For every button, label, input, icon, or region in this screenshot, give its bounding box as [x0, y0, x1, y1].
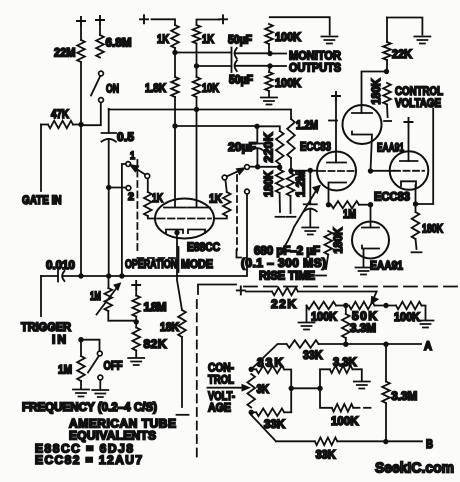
- wire box corner: [198, 285, 236, 295]
- resistor 100K (block): [320, 388, 360, 428]
- wire trigger line: [81, 194, 247, 276]
- svg-text:3K: 3K: [257, 382, 270, 396]
- node 47K/22M junction: [78, 122, 83, 127]
- svg-text:ECC83: ECC83: [374, 190, 410, 204]
- label node A: [424, 339, 432, 353]
- resistor 22M: [54, 26, 85, 62]
- label AMERICAN TUBE: [69, 417, 176, 431]
- terminal bar 180K control: [384, 120, 391, 122]
- ground (varcap): [302, 228, 318, 235]
- tube ECC83 (right) envelope: [390, 151, 429, 190]
- resistor 1K (anode left): [152, 19, 179, 52]
- resistor 220K: [257, 126, 284, 167]
- wire 22M line down: [80, 62, 82, 276]
- power + mark (6.8M top): [96, 16, 104, 24]
- wire to OFF switch: [81, 340, 100, 351]
- svg-text:180K: 180K: [422, 222, 443, 236]
- svg-text:2: 2: [128, 191, 134, 203]
- wire bus y109: [109, 109, 291, 111]
- switch OFF: [88, 351, 123, 389]
- switch contact (trigger side): [245, 189, 250, 194]
- svg-text:IN: IN: [52, 333, 66, 347]
- switch gang dashed link right: [237, 175, 242, 258]
- minus mark (EAA91): [329, 120, 337, 122]
- node EAA91/ECC83 junction: [368, 168, 373, 173]
- resistor 1K (left grid): [144, 178, 163, 218]
- E88CC plate left: [164, 127, 186, 208]
- resistor 47K: [41, 107, 81, 128]
- svg-text:1K: 1K: [152, 191, 163, 205]
- svg-text:33K: 33K: [303, 348, 323, 362]
- svg-text:1K: 1K: [202, 32, 214, 46]
- wire ECC83 left anode: [335, 101, 337, 163]
- power + mark (ECC83 right): [405, 118, 413, 126]
- svg-text:OUTPUTS: OUTPUTS: [289, 61, 341, 75]
- svg-text:100K: 100K: [275, 76, 301, 90]
- variable capacitor 680pF-2uF: [304, 170, 317, 226]
- node E88CC cathode junction: [174, 230, 179, 235]
- label GATE IN: [22, 193, 62, 207]
- label OPERATION: [125, 257, 177, 271]
- wire E88CC cathode down: [177, 233, 182, 310]
- svg-text:MODE: MODE: [181, 257, 213, 271]
- ground (3.3K): [354, 382, 370, 389]
- EAA91 top plate: [352, 112, 372, 114]
- node monitor junction: [267, 51, 272, 56]
- label E88CC = 6DJ8: [35, 442, 133, 456]
- wire trigger stub: [40, 276, 42, 316]
- power + mark (1K left): [140, 15, 148, 23]
- svg-text:1.8K: 1.8K: [145, 81, 166, 95]
- tube EAA91 (top) envelope: [343, 105, 382, 144]
- switch contact 1: [122, 150, 135, 276]
- label EQUIVALENTS: [69, 429, 156, 443]
- resistor 3.3K: [320, 355, 362, 388]
- resistor 1.8M: [132, 290, 166, 322]
- node 1.8M/82K junction: [134, 319, 139, 324]
- E88CC grid: [158, 218, 211, 220]
- node 3K top: [249, 367, 254, 372]
- svg-text:1.2M: 1.2M: [293, 171, 307, 197]
- node 1M right junction: [368, 202, 373, 207]
- switch gang dashed link: [137, 160, 175, 258]
- resistor 180K (cathode mid): [324, 227, 345, 269]
- svg-text:AGE: AGE: [208, 401, 231, 415]
- label E88CC: [187, 240, 220, 254]
- node 3K bottom: [249, 410, 254, 415]
- wire grid to node: [371, 170, 391, 172]
- svg-text:10K: 10K: [202, 81, 219, 95]
- svg-text:1.2M: 1.2M: [296, 118, 318, 132]
- resistor 33K (3K top): [251, 356, 291, 412]
- resistor 33K (3K bottom): [251, 409, 291, 432]
- switch wiper arm (left): [131, 165, 150, 178]
- svg-text:3.3M: 3.3M: [391, 389, 417, 403]
- switch wiper arm (right): [227, 165, 250, 177]
- svg-text:18K: 18K: [160, 320, 179, 334]
- label FREQUENCY: [22, 400, 157, 414]
- resistor 100K (pot left): [307, 302, 346, 324]
- ground (82K): [128, 358, 144, 365]
- wire wiper to 20uF: [249, 166, 255, 168]
- wire outputs stub: [273, 65, 286, 67]
- resistor 1K (anode right): [193, 20, 219, 67]
- resistor 100K (monitor top): [265, 17, 330, 53]
- negative terminal bar: [177, 414, 189, 416]
- ground (monitor bottom): [261, 98, 277, 105]
- svg-text:0.5: 0.5: [117, 130, 134, 144]
- capacitor 0.5: [102, 109, 135, 188]
- node A/3.3M junction: [343, 342, 348, 347]
- power + mark (1K right): [219, 15, 227, 23]
- resistor 180K (cathode right): [412, 204, 444, 249]
- svg-text:TROL: TROL: [208, 373, 234, 387]
- arrow 3K wiper: [208, 385, 249, 390]
- node 0.010-line junction: [106, 273, 111, 278]
- switch contact (right grid): [222, 175, 227, 180]
- switch ON: [83, 71, 119, 125]
- wire down to trigger line: [108, 188, 110, 277]
- resistor 1.2M (grid): [287, 171, 308, 213]
- node 1K/50uF junction: [172, 50, 177, 55]
- node 1K/50uF-2 junction: [194, 63, 199, 68]
- ground (OFF switch): [92, 390, 108, 397]
- svg-text:FREQUENCY (0.2–4 C/S): FREQUENCY (0.2–4 C/S): [22, 400, 157, 414]
- wire OPERATION/MODE divider: [178, 247, 180, 272]
- terminal bar 180K right: [412, 251, 422, 253]
- arrow varcap wiper: [281, 186, 320, 251]
- potentiometer 50K: [349, 302, 396, 323]
- svg-text:180K: 180K: [369, 78, 383, 104]
- label ECC83 (left): [300, 140, 331, 154]
- label MONITOR: [289, 49, 341, 63]
- wire 3K to 3.3K block: [291, 387, 320, 389]
- svg-text:47K: 47K: [51, 107, 69, 121]
- label node B: [426, 437, 433, 451]
- capacitor 20uF: [228, 129, 264, 165]
- svg-text:22K: 22K: [271, 297, 296, 311]
- wire monitor stub: [273, 53, 286, 55]
- node 20uF top junction: [254, 124, 259, 129]
- svg-text:50µF: 50µF: [229, 73, 253, 87]
- label TRIGGER IN: [21, 320, 71, 347]
- svg-text:1M: 1M: [90, 289, 101, 303]
- node 3.3K block: [317, 386, 322, 391]
- svg-text:ECC83: ECC83: [300, 140, 331, 154]
- power + mark (22M top): [77, 17, 85, 25]
- ground (100K right): [418, 321, 434, 328]
- svg-text:OPERATION: OPERATION: [125, 257, 177, 271]
- resistor 6.8M: [96, 25, 131, 58]
- E88CC plate right: [188, 110, 210, 208]
- dash 100K continuation: [364, 407, 371, 409]
- node 50K left: [343, 303, 348, 308]
- svg-text:50µF: 50µF: [228, 33, 252, 47]
- ground (monitor top): [321, 37, 337, 44]
- E88CC cathodes: [166, 230, 205, 234]
- wire 220K-180K junction wire: [258, 166, 280, 168]
- svg-text:OFF: OFF: [104, 359, 123, 373]
- node B/3.3M junction: [383, 439, 388, 444]
- label EAA91 (top): [377, 141, 404, 155]
- resistor 100K (monitor bottom): [265, 66, 301, 97]
- ECC83 left cathode: [329, 183, 347, 205]
- node trigger/22M junction: [78, 273, 83, 278]
- potentiometer 3K: [247, 374, 269, 408]
- minus mark rise time: [316, 275, 326, 277]
- resistor 1K (right grid): [209, 180, 231, 219]
- resistor 3.3M (left): [342, 306, 376, 345]
- svg-text:1K: 1K: [157, 32, 169, 46]
- svg-text:33K: 33K: [264, 417, 285, 431]
- svg-text:33K: 33K: [257, 356, 283, 370]
- svg-text:100K: 100K: [394, 310, 420, 324]
- resistor 82K: [132, 322, 166, 357]
- svg-text:1M: 1M: [58, 363, 72, 377]
- node 1.2M junction: [288, 168, 293, 173]
- resistor 1M (to ground): [58, 341, 85, 389]
- wire grid wire: [291, 170, 317, 172]
- svg-text:ON: ON: [106, 82, 119, 96]
- svg-text:22K: 22K: [392, 47, 412, 61]
- node 220K/180K junction: [277, 165, 282, 170]
- svg-text:1: 1: [130, 150, 135, 162]
- capacitor 50uF (lower): [197, 60, 271, 87]
- node 20uF/wiper junction: [255, 164, 260, 169]
- ground (1M): [73, 390, 89, 397]
- svg-text:22M: 22M: [54, 46, 76, 60]
- node 50K right: [383, 303, 388, 308]
- ECC83 left grid: [319, 170, 354, 172]
- resistor 3.3M (right): [382, 344, 417, 442]
- svg-text:EQUIVALENTS: EQUIVALENTS: [69, 429, 156, 443]
- wire GATE IN lead: [40, 125, 42, 192]
- label CON-TROL VOLT-AGE: [208, 361, 235, 415]
- node 1.8K column junction: [172, 123, 177, 128]
- tube EAA91 (bottom) envelope: [352, 222, 389, 259]
- capacitor 0.010: [41, 258, 81, 282]
- node ECC83 cathode junction: [413, 201, 418, 206]
- dashed supply rail: [244, 286, 458, 288]
- node cathode/1M junction: [326, 202, 331, 207]
- svg-text:180K: 180K: [261, 171, 275, 197]
- svg-text:GATE IN: GATE IN: [22, 193, 62, 207]
- ground (EAA91-2): [356, 268, 372, 275]
- label 680pF-2uF: [254, 244, 320, 258]
- terminal bar 180K: [276, 216, 285, 218]
- arrow 50K wiper: [372, 292, 378, 304]
- resistor 1M (cathode): [331, 201, 368, 221]
- EAA91 bottom plate: [362, 227, 379, 229]
- wire EAA91 anode: [362, 72, 387, 114]
- label ECC83 (right): [374, 190, 410, 204]
- label OUTPUTS: [289, 61, 341, 75]
- svg-text:ECC82 = 12AU7: ECC82 = 12AU7: [35, 453, 142, 467]
- label EAA91 (bottom): [370, 259, 403, 273]
- logo SeekIC.com: [375, 460, 454, 477]
- capacitor 50uF (upper): [175, 33, 270, 60]
- resistor 33K (node B): [251, 415, 422, 462]
- node A/3.3M-right junction: [383, 342, 388, 347]
- resistor 22K (lower): [246, 288, 377, 311]
- label MODE: [181, 257, 213, 271]
- resistor 180K (control): [369, 78, 391, 117]
- ECC83 right grid: [390, 170, 424, 172]
- node 10K/wire junction: [194, 107, 199, 112]
- label 0.1-300MS: [241, 256, 326, 270]
- svg-text:6.8M: 6.8M: [106, 36, 132, 50]
- resistor 18K: [160, 310, 186, 407]
- tube E88CC envelope: [155, 199, 214, 239]
- ground (22K): [414, 37, 430, 44]
- svg-text:1M: 1M: [343, 207, 356, 221]
- resistor 1.2M (anode): [287, 110, 318, 171]
- tube ECC83 (left) envelope: [317, 152, 356, 191]
- svg-text:A: A: [424, 339, 432, 353]
- EAA91 top cathode: [352, 132, 372, 172]
- resistor 22K (top right): [383, 18, 422, 72]
- svg-text:82K: 82K: [144, 337, 167, 351]
- terminal bar 1.2M: [287, 216, 296, 218]
- wire EAA91-2 anode: [370, 205, 372, 228]
- node 22K junction: [384, 69, 389, 74]
- node varcap junction: [308, 168, 313, 173]
- switch contact 2: [126, 186, 134, 203]
- power + mark (ECC83 left): [332, 92, 340, 100]
- node 0.5 cap / switch-2 junction: [106, 185, 111, 190]
- wire bus y126: [175, 125, 257, 127]
- svg-text:20µF: 20µF: [228, 140, 256, 154]
- ground (100K left): [299, 323, 315, 330]
- svg-text:100K: 100K: [331, 414, 359, 428]
- wire ECC83 right anode: [408, 127, 410, 161]
- power + mark (1.8M top): [132, 281, 140, 289]
- svg-text:E88CC: E88CC: [187, 240, 220, 254]
- node outputs junction: [267, 63, 272, 68]
- label CONTROL VOLTAGE: [395, 84, 443, 110]
- power + mark (lower rail): [237, 286, 245, 294]
- resistor 1.8K: [145, 53, 179, 127]
- svg-text:100K: 100K: [275, 30, 301, 44]
- svg-text:0.010: 0.010: [46, 258, 75, 272]
- svg-text:33K: 33K: [316, 448, 336, 462]
- dashed box left edge: [196, 300, 198, 460]
- resistor 100K (pot right): [394, 302, 426, 324]
- label RISE TIME: [259, 269, 315, 283]
- svg-text:EAA91: EAA91: [370, 259, 403, 273]
- minus mark near EAA91-2: [336, 249, 342, 251]
- svg-text:1.8M: 1.8M: [144, 300, 167, 314]
- ECC83 right plate: [400, 160, 418, 162]
- ECC83 right cathode: [401, 181, 416, 204]
- wire to switch contact 2: [109, 187, 126, 189]
- EAA91 bottom cathode: [362, 246, 379, 267]
- resistor 10K: [193, 66, 220, 110]
- resistor 180K (left): [261, 170, 283, 213]
- ECC83 left plate: [327, 162, 346, 164]
- svg-text:RISE TIME: RISE TIME: [259, 269, 315, 283]
- node 22M/OFF junction: [78, 337, 83, 342]
- svg-text:3.3M: 3.3M: [350, 321, 376, 335]
- label ECC82 = 12AU7: [35, 453, 142, 467]
- potentiometer 1M (trigger): [90, 276, 136, 321]
- svg-text:220K: 220K: [261, 132, 275, 162]
- resistor 33K (node A): [251, 340, 421, 369]
- svg-text:1K: 1K: [209, 192, 222, 206]
- node switch1-line junction: [119, 273, 124, 278]
- node 3K mid: [289, 386, 294, 391]
- svg-text:B: B: [426, 437, 433, 451]
- wire control voltage tap: [416, 109, 434, 205]
- svg-text:SeekIC.com: SeekIC.com: [375, 460, 454, 477]
- svg-text:100K: 100K: [311, 310, 337, 324]
